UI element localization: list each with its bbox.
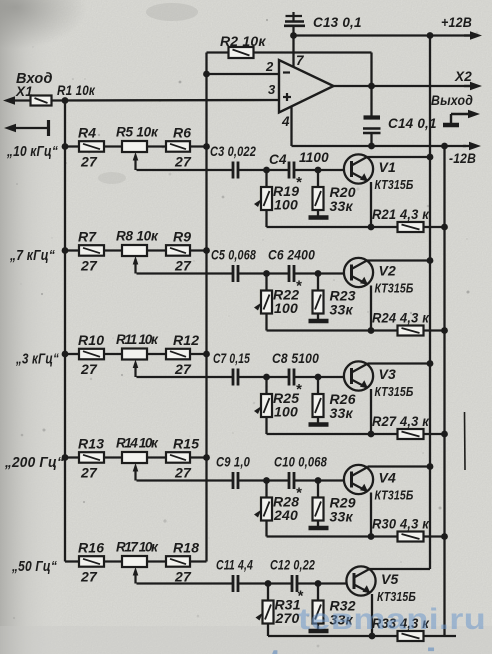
- svg-text:teвmani.ru: teвmani.ru: [298, 603, 486, 636]
- svg-text:С4: С4: [269, 152, 287, 167]
- ground symbol (R20): [309, 215, 329, 219]
- svg-text:R30 4,3 к: R30 4,3 к: [372, 516, 430, 532]
- wire: collector of V4 to collector bus: [366, 467, 368, 469]
- svg-text:R15: R15: [173, 436, 199, 452]
- svg-text:КТ315Б: КТ315Б: [375, 282, 414, 296]
- node: input bus top junction: [62, 97, 69, 104]
- wire: bottom (emitter) wire: [267, 535, 398, 537]
- svg-text:V4: V4: [379, 470, 397, 486]
- output connector X2 jack symbol: [443, 110, 480, 125]
- wire: pin 4 to -12V rail: [290, 107, 292, 147]
- input shield terminal (arrow with bar): [4, 120, 49, 136]
- op-amp output wire to X2: [334, 85, 471, 87]
- node: C14 on -12V rail: [368, 143, 375, 150]
- wire input to R1: [13, 99, 31, 101]
- svg-text:V3: V3: [379, 366, 397, 382]
- resistor R12 27: [166, 332, 199, 377]
- wire: collector of V1 to collector bus: [366, 156, 368, 159]
- svg-text:„3 кГц“: „3 кГц“: [15, 351, 59, 368]
- input connector X1 Вход: [3, 71, 53, 105]
- capacitor С9 1,0: [216, 455, 250, 490]
- svg-text:R5 10к: R5 10к: [116, 125, 159, 140]
- capacitor С5 0,068: [211, 248, 256, 283]
- svg-text:С8 5100: С8 5100: [272, 351, 319, 366]
- node: R26/base junction: [315, 374, 322, 381]
- resistor R9 27: [166, 229, 192, 274]
- svg-text:R18: R18: [173, 540, 199, 556]
- node: R25/С8 junction: [263, 374, 270, 381]
- potentiometer R17 10к: [116, 540, 159, 584]
- wire: bottom (emitter) wire: [268, 635, 397, 637]
- svg-text:27: 27: [80, 465, 98, 481]
- wire: collector bus (vertical, +12V to stages): [429, 36, 431, 570]
- svg-text:R9: R9: [173, 229, 191, 245]
- resistor R19* 100 (trimmer): [254, 170, 303, 227]
- -12V rail: [292, 145, 467, 147]
- node: -12V bus junction: [441, 143, 448, 150]
- resistor R32 33к: [313, 584, 356, 630]
- transistor V4 КТ315Б: [344, 465, 414, 503]
- capacitor С6 2400: [268, 248, 315, 283]
- node: band 3 feedback bus junction: [203, 351, 210, 358]
- transistor V2 КТ315Б: [344, 258, 414, 296]
- svg-text:27: 27: [174, 361, 192, 377]
- capacitor С4 1100: [269, 150, 329, 179]
- node: collector bus junction: [427, 360, 434, 367]
- svg-text:КТ315Б: КТ315Б: [375, 385, 414, 399]
- capacitor С7 0,15: [213, 351, 250, 386]
- svg-text:27: 27: [174, 465, 192, 481]
- wire R7 to R8 10к: [104, 249, 122, 251]
- wire: pin 7 to +12V rail: [292, 36, 294, 68]
- wire to -12V bus: [424, 329, 445, 331]
- svg-text:R14 10к: R14 10к: [116, 436, 159, 451]
- wire R5 10к to R6: [147, 145, 166, 147]
- potentiometer R14 10к: [116, 436, 159, 481]
- wire node to base of V5: [318, 582, 347, 584]
- resistor R21 4,3к: [372, 206, 430, 232]
- ground symbol (R32): [309, 629, 329, 633]
- wire: bottom (emitter) wire: [267, 433, 398, 435]
- potentiometer R5 10к: [116, 125, 159, 171]
- node: emitter junction: [368, 533, 375, 540]
- node: band 4 left bus junction: [62, 454, 69, 461]
- svg-text:27: 27: [80, 361, 98, 377]
- wire: emitter of V3 down: [370, 389, 372, 434]
- node: emitter junction: [368, 327, 375, 334]
- node: R22/С6 junction: [263, 270, 270, 277]
- resistor R25* 100 (trimmer): [254, 377, 303, 434]
- node: output/R2/C14 junction: [368, 83, 375, 90]
- capacitor C13 0,1: [284, 12, 362, 36]
- svg-text:*: *: [296, 278, 303, 295]
- node: collector bus junction: [427, 463, 434, 470]
- wire: emitter of V2 down: [370, 286, 372, 331]
- wire node to base of V2: [318, 272, 345, 274]
- wire R10 to R11 10к: [104, 353, 122, 355]
- svg-text:R1 10к: R1 10к: [57, 82, 96, 98]
- svg-text:*: *: [296, 174, 303, 191]
- resistor R1 10к: [31, 82, 96, 106]
- wire R18 to feedback bus (segment): [190, 560, 207, 562]
- node: -12V bus junction: [441, 224, 448, 231]
- capacitor С11 4,4: [216, 558, 253, 593]
- svg-text:V2: V2: [379, 263, 397, 279]
- svg-text:R6: R6: [173, 125, 191, 141]
- svg-text:„50 Гц“: „50 Гц“: [11, 558, 57, 575]
- wire to -12V bus: [424, 226, 445, 228]
- wire R8 10к to R9: [147, 249, 166, 251]
- svg-text:27: 27: [80, 569, 98, 585]
- svg-text:33к: 33к: [330, 302, 354, 318]
- node: R32/base junction: [315, 580, 322, 587]
- wire R14 10к to R15: [147, 456, 166, 458]
- resistor R18 27: [166, 540, 199, 585]
- potentiometer R11 10к: [116, 332, 159, 377]
- wire: collector of V5 to collector bus: [369, 568, 371, 571]
- svg-text:V1: V1: [379, 159, 397, 175]
- svg-text:7: 7: [296, 53, 305, 68]
- svg-text:КТ315Б: КТ315Б: [375, 178, 414, 192]
- node: -12V bus junction: [441, 431, 448, 438]
- svg-text:27: 27: [80, 258, 98, 274]
- node: band 1 left bus junction: [62, 143, 69, 150]
- wire cap to node: [238, 272, 267, 274]
- wire: feedback bus (vertical): [205, 53, 207, 562]
- resistor R27 4,3к: [372, 413, 430, 439]
- wire R13 to R14 10к: [104, 456, 122, 458]
- svg-text:Выход: Выход: [431, 92, 473, 108]
- wire: collector of V3 to collector bus: [366, 364, 368, 365]
- resistor R29 33к: [313, 481, 356, 527]
- scan crease mark: [464, 412, 467, 470]
- wire: emitter of V1 down: [370, 182, 372, 227]
- capacitor C14 0,1: [363, 86, 437, 146]
- wire node to base of V4: [318, 479, 345, 481]
- node: R23/base junction: [315, 270, 322, 277]
- wire: bus to R7: [65, 249, 79, 251]
- resistor R4 27: [78, 125, 104, 170]
- svg-text:X2: X2: [454, 69, 472, 84]
- wire R11 10к to R12: [147, 353, 166, 355]
- node: R31/С12 junction: [265, 580, 272, 587]
- transistor V5 КТ315Б: [346, 566, 416, 604]
- node: R29/base junction: [315, 477, 322, 484]
- svg-text:27: 27: [80, 154, 98, 170]
- wire: emitter of V4 down: [370, 493, 372, 537]
- wire: left input bus (vertical): [64, 101, 66, 562]
- svg-text:R16: R16: [78, 540, 104, 556]
- resistor R16 27: [78, 540, 104, 585]
- resistor R15 27: [166, 436, 199, 481]
- node: band 2 feedback bus junction: [203, 247, 210, 254]
- svg-text:3: 3: [268, 82, 276, 97]
- wire: -12V bus (vertical, to emitter resistors): [443, 146, 445, 636]
- +12V rail: [294, 34, 471, 36]
- svg-text:*: *: [296, 381, 303, 398]
- node: R19/С4 junction: [263, 167, 270, 174]
- wire to -12V bus: [424, 433, 445, 435]
- wire R17 10к to R18: [147, 560, 166, 562]
- wire to -12V bus: [424, 535, 445, 537]
- wire R15 to feedback bus (segment): [190, 456, 207, 458]
- wire cap to node: [238, 376, 267, 378]
- wire to -12V bus: [424, 635, 457, 637]
- watermark (site stamp): [268, 603, 492, 654]
- svg-text:С6 2400: С6 2400: [268, 248, 315, 263]
- svg-text:33к: 33к: [330, 405, 354, 421]
- svg-text:240: 240: [273, 507, 298, 523]
- svg-text:R13: R13: [78, 436, 104, 452]
- svg-text:С10 0,068: С10 0,068: [274, 455, 327, 470]
- node: band 4 feedback bus junction: [203, 454, 210, 461]
- svg-text:V5: V5: [381, 571, 399, 587]
- node: emitter junction: [368, 224, 375, 231]
- ground symbol (R23): [309, 319, 329, 323]
- svg-text:R12: R12: [173, 332, 199, 348]
- resistor R2 10к (feedback): [220, 33, 266, 58]
- resistor R24 4,3к: [372, 310, 430, 336]
- svg-text:4: 4: [281, 114, 290, 129]
- wire: wiper line band 2 to С5: [137, 272, 234, 274]
- svg-text:С9 1,0: С9 1,0: [216, 455, 250, 470]
- svg-text:*: *: [297, 588, 304, 605]
- wire: wiper line band 3 to С7: [137, 376, 234, 378]
- svg-text:270: 270: [275, 610, 300, 626]
- node: emitter junction: [369, 633, 376, 640]
- wire: wiper line band 5 to С11: [137, 582, 234, 584]
- wire: bus to R13: [65, 456, 79, 458]
- capacitor С10 0,068: [274, 455, 327, 490]
- svg-text:С11 4,4: С11 4,4: [216, 558, 253, 573]
- wire: wiper line band 1 to С3: [137, 169, 234, 171]
- resistor R13 27: [78, 436, 104, 481]
- op-amp U1 (triangle): [265, 53, 334, 129]
- svg-text:R21 4,3 к: R21 4,3 к: [372, 206, 430, 222]
- resistor R6 27: [166, 125, 192, 170]
- svg-text:+12В: +12В: [441, 15, 472, 30]
- resistor R10 27: [78, 332, 104, 377]
- svg-text:R27 4,3 к: R27 4,3 к: [372, 413, 430, 429]
- svg-text:КТ315Б: КТ315Б: [377, 590, 416, 604]
- svg-text:R11 10к: R11 10к: [116, 332, 159, 347]
- resistor R31* 270 (trimmer): [256, 584, 305, 637]
- svg-text:100: 100: [274, 404, 298, 420]
- svg-text:27: 27: [174, 569, 192, 585]
- svg-text:R8 10к: R8 10к: [116, 229, 159, 244]
- wire: feedback bus to op-amp pin 2: [207, 73, 280, 75]
- wire R16 to R17 10к: [104, 560, 122, 562]
- node: R28/С10 junction: [263, 477, 270, 484]
- wire R1 to op-amp pin 3: [51, 99, 279, 102]
- svg-text:27: 27: [174, 154, 192, 170]
- capacitor С12 0,22: [270, 558, 315, 593]
- svg-text:R24 4,3 к: R24 4,3 к: [372, 310, 430, 326]
- svg-text:КТ315Б: КТ315Б: [375, 489, 414, 503]
- ground symbol (R29): [309, 526, 329, 530]
- wire R2 right lead to output node: [254, 51, 372, 53]
- node: band 1 feedback bus junction: [203, 143, 210, 150]
- svg-text:R4: R4: [78, 125, 96, 141]
- svg-text:С3 0,022: С3 0,022: [210, 144, 256, 159]
- transistor V1 КТ315Б: [344, 154, 414, 192]
- wire: emitter of V5 down: [371, 594, 373, 636]
- svg-text:„200 Гц“: „200 Гц“: [4, 454, 64, 471]
- wire cap to node: [238, 169, 267, 171]
- wire R12 to feedback bus (segment): [190, 353, 207, 355]
- transistor V3 КТ315Б: [344, 361, 414, 399]
- wire cap to node: [238, 582, 268, 584]
- wire: collector of V2 to collector bus: [366, 259, 368, 262]
- svg-text:1100: 1100: [299, 150, 329, 165]
- potentiometer R8 10к: [116, 229, 159, 274]
- wire node to base of V3: [318, 376, 345, 378]
- svg-text:100: 100: [274, 197, 298, 213]
- wire: bottom (emitter) wire: [267, 226, 398, 228]
- node: emitter junction: [368, 431, 375, 438]
- wire: bus to R16: [65, 560, 79, 562]
- svg-text:teвmani.ru: teвmani.ru: [268, 641, 492, 654]
- svg-text:R10: R10: [78, 332, 104, 348]
- node: collector bus junction: [427, 154, 434, 161]
- node: R20/base junction: [315, 167, 322, 174]
- svg-text:100: 100: [274, 300, 298, 316]
- node: C13/pin7 on +12V rail: [290, 32, 297, 39]
- svg-text:R2 10к: R2 10к: [220, 33, 266, 49]
- node: band 2 left bus junction: [62, 247, 69, 254]
- wire R2 left lead to feedback bus: [207, 51, 229, 53]
- resistor R23 33к: [313, 274, 356, 320]
- svg-text:С13 0,1: С13 0,1: [313, 15, 362, 30]
- svg-text:С5 0,068: С5 0,068: [211, 248, 256, 263]
- resistor R20 33к: [313, 170, 356, 216]
- svg-text:33к: 33к: [330, 509, 354, 525]
- svg-text:33к: 33к: [330, 198, 354, 214]
- resistor R28* 240 (trimmer): [254, 481, 303, 537]
- svg-text:2: 2: [265, 59, 274, 74]
- wire R9 to feedback bus (segment): [190, 249, 207, 251]
- node: pin2 / feedback junction: [203, 71, 210, 78]
- svg-text:С7 0,15: С7 0,15: [213, 351, 250, 366]
- node: band 3 left bus junction: [62, 351, 69, 358]
- svg-text:27: 27: [174, 258, 192, 274]
- resistor R33 4,3к: [372, 615, 430, 641]
- wire: bottom (emitter) wire: [267, 329, 398, 331]
- svg-text:„7 кГц“: „7 кГц“: [9, 247, 55, 264]
- svg-text:-12В: -12В: [449, 151, 476, 166]
- node: -12V bus junction: [441, 533, 448, 540]
- svg-text:R7: R7: [78, 229, 97, 245]
- capacitor С8 5100: [272, 351, 319, 386]
- resistor R26 33к: [313, 377, 356, 423]
- resistor R7 27: [78, 229, 104, 274]
- node: collector bus junction: [427, 257, 434, 264]
- ground symbol (R26): [309, 422, 329, 426]
- svg-text:С12 0,22: С12 0,22: [270, 558, 315, 573]
- node: -12V bus junction: [441, 327, 448, 334]
- wire: bus to R4: [65, 145, 79, 147]
- node: collector bus on +12V rail: [427, 32, 434, 39]
- svg-text:R17 10к: R17 10к: [116, 540, 159, 555]
- wire R6 to feedback bus (segment): [190, 145, 207, 147]
- svg-text:„10 кГц“: „10 кГц“: [6, 143, 58, 160]
- capacitor С3 0,022: [210, 144, 256, 179]
- wire node to base of V1: [318, 169, 345, 171]
- wire: wiper line band 4 to С9: [137, 479, 234, 481]
- svg-text:*: *: [296, 485, 303, 502]
- wire R4 to R5 10к: [104, 145, 122, 147]
- resistor R30 4,3к: [372, 516, 430, 542]
- resistor R22* 100 (trimmer): [254, 274, 303, 331]
- wire cap to node: [238, 479, 267, 481]
- wire: bus to R10: [65, 353, 79, 355]
